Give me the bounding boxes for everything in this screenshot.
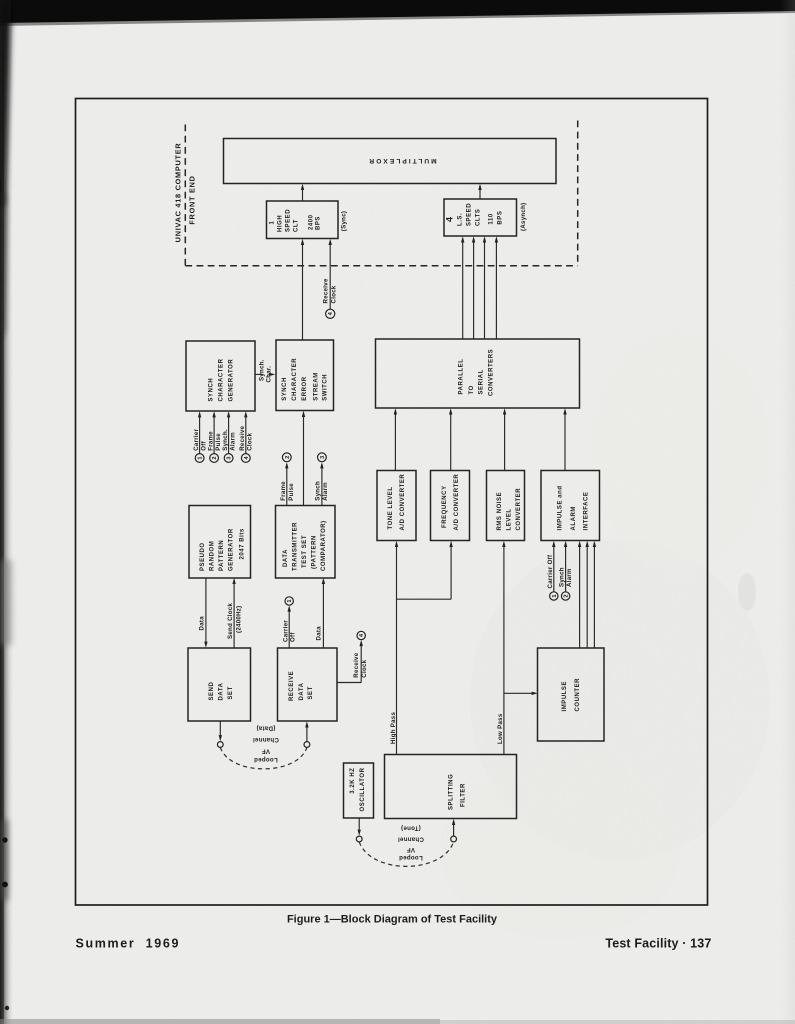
svg-text:SPLITTING: SPLITTING bbox=[449, 774, 455, 810]
svg-text:Test Facility · 137: Test Facility · 137 bbox=[605, 937, 711, 951]
svg-text:LEVEL: LEVEL bbox=[507, 508, 513, 530]
svg-text:1: 1 bbox=[198, 456, 204, 459]
svg-text:SYNCH: SYNCH bbox=[208, 378, 214, 402]
svg-text:TRANSMITTER: TRANSMITTER bbox=[293, 522, 299, 571]
svg-text:GENERATOR: GENERATOR bbox=[229, 528, 235, 571]
svg-text:RANDOM: RANDOM bbox=[210, 541, 216, 571]
svg-text:PATTERN: PATTERN bbox=[219, 540, 225, 571]
svg-text:OSCILLATOR: OSCILLATOR bbox=[360, 767, 366, 811]
svg-text:TEST SET: TEST SET bbox=[302, 535, 308, 568]
svg-text:Pulse: Pulse bbox=[215, 433, 222, 451]
svg-text:ALARM: ALARM bbox=[571, 506, 577, 530]
svg-text:2: 2 bbox=[285, 456, 291, 459]
svg-text:Carrier: Carrier bbox=[282, 620, 289, 642]
svg-text:2: 2 bbox=[564, 594, 570, 597]
svg-text:BPS: BPS bbox=[316, 216, 322, 230]
svg-text:FREQUENCY: FREQUENCY bbox=[442, 485, 448, 528]
svg-text:Receive: Receive bbox=[353, 652, 360, 677]
svg-text:Frame: Frame bbox=[280, 481, 287, 501]
svg-text:FILTER: FILTER bbox=[460, 783, 466, 807]
svg-text:Off: Off bbox=[290, 632, 297, 642]
svg-text:2047 Bits: 2047 Bits bbox=[240, 528, 246, 559]
svg-text:2400: 2400 bbox=[309, 214, 315, 230]
svg-text:(2400Hz): (2400Hz) bbox=[235, 606, 242, 633]
svg-text:A/D CONVERTER: A/D CONVERTER bbox=[400, 474, 406, 531]
svg-text:CONVERTER: CONVERTER bbox=[516, 488, 522, 531]
svg-text:Channel: Channel bbox=[398, 836, 424, 843]
svg-text:IMPULSE: IMPULSE bbox=[562, 681, 568, 712]
svg-text:INTERFACE: INTERFACE bbox=[584, 492, 590, 531]
svg-text:Frame: Frame bbox=[208, 431, 215, 451]
svg-text:TONE LEVEL: TONE LEVEL bbox=[388, 486, 394, 529]
svg-text:Alarm: Alarm bbox=[230, 432, 237, 451]
svg-text:FRONT END: FRONT END bbox=[187, 175, 196, 224]
svg-text:SPEED: SPEED bbox=[286, 209, 292, 232]
svg-text:(Sync): (Sync) bbox=[341, 211, 348, 231]
svg-text:Receive: Receive bbox=[239, 425, 246, 450]
svg-text:Data: Data bbox=[316, 626, 323, 641]
svg-text:Looped: Looped bbox=[254, 756, 278, 763]
svg-text:SYNCH: SYNCH bbox=[282, 377, 288, 401]
svg-text:Clock: Clock bbox=[247, 432, 254, 450]
svg-text:CHARACTER: CHARACTER bbox=[218, 358, 224, 401]
svg-text:RECEIVE: RECEIVE bbox=[289, 671, 295, 701]
svg-text:CLT: CLT bbox=[294, 219, 300, 232]
svg-text:Char.: Char. bbox=[265, 366, 272, 383]
svg-text:CHARACTER: CHARACTER bbox=[292, 358, 298, 401]
svg-text:VF: VF bbox=[262, 747, 270, 754]
svg-text:High Pass: High Pass bbox=[390, 712, 397, 744]
svg-text:1: 1 bbox=[552, 594, 558, 597]
svg-text:Alarm: Alarm bbox=[566, 568, 573, 587]
svg-text:3: 3 bbox=[227, 456, 233, 459]
svg-text:Carrier: Carrier bbox=[193, 428, 200, 450]
svg-text:HIGH: HIGH bbox=[278, 215, 284, 232]
svg-text:1: 1 bbox=[270, 221, 276, 225]
svg-text:SET: SET bbox=[228, 686, 234, 699]
svg-text:SEND: SEND bbox=[209, 682, 215, 701]
svg-text:SET: SET bbox=[308, 686, 314, 699]
svg-text:(Asynch): (Asynch) bbox=[520, 203, 527, 231]
svg-text:Off: Off bbox=[201, 440, 208, 450]
svg-text:3: 3 bbox=[320, 456, 326, 459]
svg-text:A/D CONVERTER: A/D CONVERTER bbox=[454, 474, 460, 531]
svg-text:4: 4 bbox=[445, 217, 455, 222]
svg-text:DATA: DATA bbox=[219, 682, 225, 700]
svg-text:Synch: Synch bbox=[314, 481, 321, 501]
svg-text:STREAM: STREAM bbox=[313, 372, 319, 401]
svg-text:BPS: BPS bbox=[498, 211, 504, 225]
svg-text:SWITCH: SWITCH bbox=[323, 374, 329, 401]
svg-text:Synch: Synch bbox=[558, 567, 565, 587]
svg-text:DATA: DATA bbox=[299, 682, 305, 700]
svg-text:MULTIPLEXOR: MULTIPLEXOR bbox=[367, 157, 436, 164]
svg-text:3.2K HZ: 3.2K HZ bbox=[350, 768, 356, 794]
svg-text:VF: VF bbox=[407, 846, 415, 853]
svg-text:L.S.: L.S. bbox=[458, 213, 464, 226]
svg-text:1: 1 bbox=[287, 599, 293, 602]
svg-text:COMPARATOR): COMPARATOR) bbox=[321, 520, 327, 571]
svg-text:Channel: Channel bbox=[253, 736, 279, 743]
svg-text:COUNTER: COUNTER bbox=[575, 678, 581, 712]
svg-text:Clock: Clock bbox=[361, 659, 368, 677]
svg-text:Pulse: Pulse bbox=[288, 483, 295, 501]
svg-text:DATA: DATA bbox=[283, 549, 289, 567]
svg-text:UNIVAC 418 COMPUTER: UNIVAC 418 COMPUTER bbox=[174, 143, 183, 243]
svg-text:Summer 1969: Summer 1969 bbox=[76, 937, 181, 951]
svg-text:Carrier Off: Carrier Off bbox=[547, 554, 554, 588]
svg-text:IMPULSE and: IMPULSE and bbox=[558, 485, 564, 530]
svg-text:TO: TO bbox=[469, 385, 475, 394]
svg-text:Data: Data bbox=[199, 616, 206, 631]
svg-text:SERIAL: SERIAL bbox=[479, 369, 485, 394]
svg-text:CLTS: CLTS bbox=[476, 209, 482, 226]
svg-text:Synch.: Synch. bbox=[222, 429, 229, 451]
svg-text:ERROR: ERROR bbox=[302, 376, 308, 401]
svg-text:110: 110 bbox=[489, 213, 495, 224]
svg-text:PARALLEL: PARALLEL bbox=[459, 359, 465, 395]
svg-text:CONVERTERS: CONVERTERS bbox=[489, 349, 495, 396]
svg-text:Low Pass: Low Pass bbox=[497, 713, 504, 744]
svg-text:(Tone): (Tone) bbox=[401, 825, 421, 832]
svg-text:(PATTERN: (PATTERN bbox=[312, 535, 318, 569]
svg-text:Alarm: Alarm bbox=[322, 482, 329, 501]
svg-text:SPEED: SPEED bbox=[467, 203, 473, 226]
svg-text:Receive: Receive bbox=[323, 278, 330, 303]
svg-text:GENERATOR: GENERATOR bbox=[228, 359, 234, 402]
svg-text:Figure 1—Block Diagram of Test: Figure 1—Block Diagram of Test Facility bbox=[287, 914, 498, 926]
svg-text:(Data): (Data) bbox=[256, 724, 275, 731]
svg-text:RMS NOISE: RMS NOISE bbox=[497, 492, 503, 531]
svg-text:Clock: Clock bbox=[331, 285, 338, 303]
svg-text:PSEUDO: PSEUDO bbox=[200, 542, 206, 571]
svg-text:2: 2 bbox=[212, 456, 218, 459]
svg-text:Send Clock: Send Clock bbox=[227, 603, 234, 639]
svg-text:Looped: Looped bbox=[399, 854, 423, 861]
